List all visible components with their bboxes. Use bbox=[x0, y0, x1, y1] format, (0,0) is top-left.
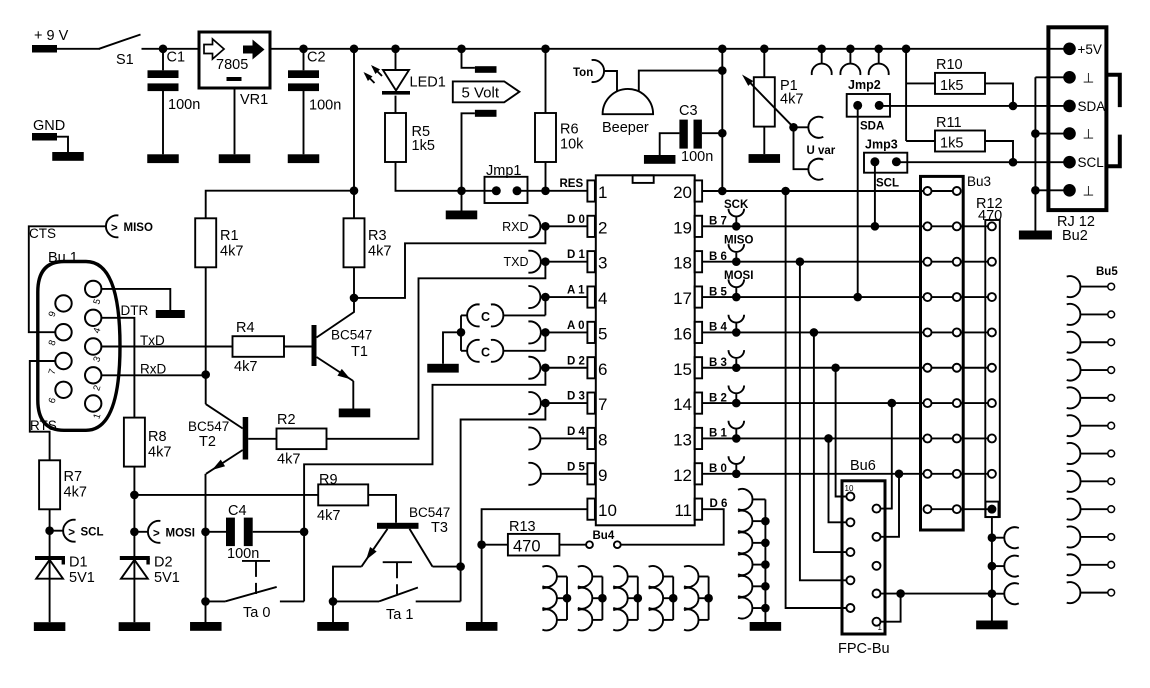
svg-text:DTR: DTR bbox=[121, 303, 149, 318]
svg-text:Bu6: Bu6 bbox=[850, 458, 876, 474]
svg-text:Ta 1: Ta 1 bbox=[386, 607, 413, 623]
socket R12 gnd 2 bbox=[988, 562, 997, 571]
node P1 wiper bbox=[789, 123, 798, 132]
IC pin 17 box bbox=[695, 286, 703, 307]
Bu5 socket 12 bbox=[1067, 582, 1081, 603]
LED1 bbox=[383, 69, 409, 71]
Bu3 row 5 pins bbox=[932, 331, 953, 333]
node SCL tap bbox=[45, 526, 54, 535]
svg-text:SCK: SCK bbox=[724, 199, 749, 211]
Bu5 socket 10 bbox=[1067, 527, 1081, 548]
IC line pin20 VCC bbox=[702, 190, 923, 192]
resistor R6 bbox=[545, 49, 547, 113]
IC pin 15 box bbox=[695, 357, 703, 378]
svg-text:BC547: BC547 bbox=[331, 328, 372, 343]
IC pin 12 box bbox=[695, 463, 703, 484]
IC U1 body bbox=[596, 175, 695, 525]
potentiometer P1 bbox=[763, 49, 765, 77]
wire C3 to ground bbox=[660, 133, 680, 155]
ground C1 bbox=[147, 154, 179, 163]
wire T3 collector link bbox=[433, 566, 461, 568]
resistor R8 bbox=[124, 418, 145, 467]
svg-text:⊥: ⊥ bbox=[1083, 70, 1095, 85]
wire VR1 ground bbox=[234, 88, 236, 154]
node C3 +5V bbox=[718, 129, 727, 138]
wire T3 emitter to Ta1 left bbox=[333, 567, 362, 602]
svg-text:2: 2 bbox=[598, 218, 607, 237]
RJ12 pin 6 GND bbox=[1063, 184, 1076, 197]
wire pin20 line to Bu6 bbox=[781, 187, 790, 196]
node C1 tap bbox=[159, 45, 168, 54]
svg-text:D 4: D 4 bbox=[567, 426, 586, 438]
svg-text:15: 15 bbox=[673, 360, 692, 379]
connector Bu3 body bbox=[921, 176, 964, 530]
grounded socket column bbox=[764, 499, 766, 622]
node R9 line tap bbox=[130, 491, 139, 500]
svg-text:100n: 100n bbox=[309, 98, 341, 114]
capacitor C1 bbox=[162, 49, 164, 71]
rail socket 2 bbox=[846, 45, 855, 54]
svg-text:4k7: 4k7 bbox=[220, 244, 243, 260]
wire rail to LED1 bbox=[395, 49, 397, 69]
svg-text:4k7: 4k7 bbox=[148, 445, 171, 461]
svg-text:Bu4: Bu4 bbox=[593, 530, 615, 542]
socket SCL left bbox=[50, 530, 64, 532]
wire Jmp3 to RJ12 SCL bbox=[896, 161, 1069, 163]
svg-text:CTS: CTS bbox=[29, 226, 56, 241]
svg-text:Bu2: Bu2 bbox=[1062, 228, 1088, 244]
wire B6 to Bu6 bbox=[796, 257, 805, 266]
Bu6 left pin 6 bbox=[846, 548, 854, 556]
wire R8 to D2 bbox=[133, 467, 135, 557]
R12 row 3 link bbox=[961, 296, 988, 298]
wire crystal common to ground bbox=[443, 332, 461, 364]
svg-text:10k: 10k bbox=[560, 137, 584, 153]
svg-text:Ton: Ton bbox=[573, 67, 593, 79]
svg-text:TXD: TXD bbox=[504, 255, 529, 269]
node Jmp2 on B5 bbox=[853, 293, 862, 302]
svg-text:470: 470 bbox=[978, 208, 1002, 224]
svg-text:5 Volt: 5 Volt bbox=[462, 85, 500, 102]
svg-text:7805: 7805 bbox=[216, 57, 248, 73]
wire T2 emitter down bbox=[205, 474, 207, 602]
RJ12 ground bus bbox=[1035, 76, 1069, 78]
svg-text:A 0: A 0 bbox=[567, 320, 584, 332]
Bu1 pin 1 bbox=[85, 395, 101, 411]
svg-text:19: 19 bbox=[673, 218, 692, 237]
svg-text:Bu3: Bu3 bbox=[967, 174, 991, 189]
svg-text:B 2: B 2 bbox=[709, 392, 727, 404]
svg-text:T3: T3 bbox=[431, 520, 448, 536]
node rail to IC supply column bbox=[718, 45, 727, 54]
svg-text:100n: 100n bbox=[227, 546, 259, 562]
svg-text:SCL: SCL bbox=[1078, 155, 1105, 170]
Bu5 socket 3 bbox=[1067, 332, 1081, 353]
ground P1 bbox=[749, 154, 781, 163]
socket Ton bbox=[592, 60, 604, 82]
svg-text:1: 1 bbox=[598, 183, 607, 202]
wire Ta0 right up bbox=[303, 532, 305, 602]
svg-text:R7: R7 bbox=[64, 469, 83, 485]
Bu6 right pin 5 bbox=[873, 562, 881, 570]
node R6 tap bbox=[541, 45, 550, 54]
svg-text:BC547: BC547 bbox=[409, 505, 450, 520]
wire Ta1 right up bbox=[460, 567, 462, 602]
ground D2 bbox=[119, 622, 150, 631]
ground D1 bbox=[34, 622, 66, 631]
wire R1 to RxD node bbox=[205, 267, 207, 404]
DTR ground bar bbox=[156, 310, 185, 318]
wire R8 node to R9 bbox=[134, 494, 318, 496]
svg-text:C4: C4 bbox=[228, 503, 247, 519]
svg-text:100n: 100n bbox=[168, 97, 200, 113]
svg-text:A 1: A 1 bbox=[567, 285, 585, 297]
node R11 SCL bbox=[1009, 158, 1018, 167]
IC pin 14 box bbox=[695, 393, 703, 414]
wire rail to R3 bbox=[353, 49, 355, 219]
IC line B 5 bbox=[702, 296, 923, 298]
node R13 left bbox=[477, 540, 486, 549]
Bu5 socket 4 bbox=[1067, 360, 1081, 381]
IC pin 16 box bbox=[695, 322, 703, 343]
ground socket column bbox=[750, 622, 782, 631]
+9V terminal bbox=[32, 45, 57, 53]
wire wiper to U var lower socket bbox=[794, 127, 809, 169]
Bu6 right pin 7 bbox=[873, 533, 881, 541]
RJ12 pin 2 GND bbox=[1063, 71, 1076, 84]
Bu6 right pin 9 bbox=[873, 505, 881, 513]
node beeper +5V bbox=[718, 66, 727, 75]
crystal socket lower C bbox=[467, 340, 479, 362]
Bu3 row 4 pins bbox=[932, 296, 953, 298]
Bu6 left pin 10 bbox=[846, 493, 854, 501]
svg-text:Bu5: Bu5 bbox=[1096, 266, 1118, 278]
IC line B 4 bbox=[702, 331, 923, 333]
svg-text:4k7: 4k7 bbox=[277, 452, 300, 468]
IC left socket D 2 bbox=[528, 357, 540, 379]
svg-text:GND: GND bbox=[33, 118, 65, 134]
svg-text:B 7: B 7 bbox=[709, 216, 727, 228]
jumper Jmp1 bbox=[462, 190, 497, 192]
pushbutton Ta 0 bbox=[206, 600, 226, 602]
node C4 right bbox=[300, 528, 309, 537]
svg-text:MOSI: MOSI bbox=[166, 528, 195, 540]
ground RJ12 bbox=[1019, 231, 1052, 240]
socket R12 gnd 1 bbox=[988, 533, 997, 542]
svg-text:1k5: 1k5 bbox=[412, 138, 435, 154]
resistor R3 bbox=[344, 218, 365, 267]
IC line B 6 bbox=[702, 261, 923, 263]
wire B3 to Bu6 bbox=[831, 363, 840, 372]
svg-text:B 5: B 5 bbox=[709, 286, 728, 298]
wire R13 node ground bbox=[481, 545, 483, 622]
socket MOSI left bbox=[134, 531, 148, 533]
Bu3 row 8 pins bbox=[932, 437, 953, 439]
switch S1 bbox=[99, 35, 141, 49]
IC left socket D 5 bbox=[528, 463, 540, 485]
connector Bu1 DB9 outline bbox=[38, 262, 120, 431]
ground GND terminal bbox=[52, 152, 84, 161]
5Volt lower tick bbox=[475, 110, 497, 117]
svg-text:C1: C1 bbox=[167, 50, 186, 66]
wire RXD to T1 collector bbox=[354, 226, 545, 298]
ground Ta1 bbox=[317, 622, 349, 631]
svg-text:C3: C3 bbox=[679, 103, 698, 119]
IC pin 4 box bbox=[587, 286, 595, 307]
IC left socket D 0 bbox=[528, 215, 540, 237]
Bu1 pin 2 bbox=[85, 367, 101, 383]
svg-text:MOSI: MOSI bbox=[724, 270, 753, 282]
svg-text:8: 8 bbox=[598, 430, 607, 449]
5 Volt net flag bbox=[453, 81, 520, 102]
svg-text:10: 10 bbox=[845, 484, 854, 493]
svg-text:Jmp2: Jmp2 bbox=[848, 78, 881, 92]
svg-text:R8: R8 bbox=[148, 429, 167, 445]
wire Jmp1 to R6 node bbox=[517, 190, 546, 192]
svg-text:VR1: VR1 bbox=[240, 92, 268, 108]
svg-text:R3: R3 bbox=[368, 228, 387, 244]
svg-text:D 0: D 0 bbox=[567, 214, 585, 226]
svg-text:B 6: B 6 bbox=[709, 251, 727, 263]
IC pin 1 box bbox=[587, 180, 595, 201]
wire RES to pin 1 bbox=[546, 190, 588, 192]
Bu3 row 3 pins bbox=[932, 261, 953, 263]
transistor T2 bbox=[243, 417, 249, 460]
socket triple 5 bbox=[708, 577, 710, 620]
R12 row 5 link bbox=[961, 367, 988, 369]
Bu6 left pin 8 bbox=[846, 518, 854, 526]
svg-text:D 6: D 6 bbox=[710, 498, 728, 510]
svg-text:16: 16 bbox=[673, 324, 692, 343]
node Jmp1 left bbox=[457, 187, 466, 196]
zener diode D2 bbox=[120, 556, 150, 560]
wire T1 emitter to ground bbox=[352, 381, 354, 409]
svg-text:R11: R11 bbox=[936, 115, 962, 131]
socket triple 2 bbox=[601, 577, 603, 620]
ground Ta0 bbox=[190, 622, 222, 631]
svg-text:RXD: RXD bbox=[502, 220, 528, 234]
IC pin 18 box bbox=[695, 251, 703, 272]
IC pin 7 box bbox=[587, 393, 595, 414]
Bu1 pin 7 bbox=[55, 353, 71, 369]
rail socket 1 bbox=[817, 45, 826, 54]
node R1R3 link bbox=[350, 186, 359, 195]
IC left socket D 4 bbox=[528, 427, 540, 449]
IC pin 19 box bbox=[695, 216, 703, 237]
RJ12 pin 3 SDA bbox=[1063, 100, 1076, 113]
svg-text:C2: C2 bbox=[307, 50, 326, 66]
node Ta1 left bbox=[329, 597, 338, 606]
socket triple 4 bbox=[672, 577, 674, 620]
Bu3 row 1 pins bbox=[932, 190, 953, 192]
wire beeper to +5V column bbox=[639, 71, 723, 92]
svg-text:4k7: 4k7 bbox=[780, 92, 803, 108]
transistor T1 bbox=[312, 325, 317, 366]
IC line B 7 bbox=[702, 225, 923, 227]
svg-text:4: 4 bbox=[598, 289, 607, 308]
wire Ta1 left ground bbox=[332, 601, 334, 622]
svg-text:FPC-Bu: FPC-Bu bbox=[838, 641, 890, 657]
crystal socket upper C bbox=[467, 304, 479, 326]
wire R6 to RES node bbox=[545, 162, 547, 191]
svg-text:20: 20 bbox=[673, 183, 692, 202]
svg-text:D 5: D 5 bbox=[567, 461, 586, 473]
svg-text:⊥: ⊥ bbox=[1083, 127, 1095, 142]
wire Jmp2 to RJ12 SDA bbox=[879, 105, 1069, 107]
svg-text:>: > bbox=[111, 223, 118, 235]
IC left socket A 1 bbox=[528, 286, 540, 308]
RJ12 pin 4 GND bbox=[1063, 127, 1076, 140]
svg-text:B 3: B 3 bbox=[709, 357, 727, 369]
voltage regulator VR1 7805 bbox=[199, 32, 270, 88]
wire C3 to +5V column bbox=[702, 132, 722, 134]
svg-text:C: C bbox=[481, 345, 490, 359]
svg-text:BC547: BC547 bbox=[188, 419, 229, 434]
node T1 collector bbox=[350, 294, 359, 303]
wire R7 to D1 bbox=[49, 509, 51, 556]
pushbutton Ta 1 bbox=[333, 600, 379, 602]
Bu1 pin 5 bbox=[85, 281, 101, 297]
wire pin2 RxD to T2 node bbox=[101, 374, 205, 376]
wire rail down to pin20 line bbox=[721, 49, 723, 191]
svg-text:3: 3 bbox=[598, 254, 607, 273]
wire pin5 to DTR ground bbox=[101, 289, 170, 310]
Bu3 row 6 pins bbox=[932, 367, 953, 369]
R12 row 2 link bbox=[961, 261, 988, 263]
svg-text:10: 10 bbox=[598, 501, 617, 520]
svg-text:SCL: SCL bbox=[81, 527, 104, 539]
svg-text:R2: R2 bbox=[277, 412, 296, 428]
wire wiper to U var upper socket bbox=[794, 126, 809, 128]
svg-text:4k7: 4k7 bbox=[368, 244, 391, 260]
IC line B 0 bbox=[702, 473, 923, 475]
socket U var upper bbox=[808, 117, 823, 138]
svg-text:R10: R10 bbox=[936, 57, 963, 73]
wire B4 to Bu6 bbox=[810, 328, 819, 337]
beeper bbox=[603, 89, 654, 114]
svg-text:5: 5 bbox=[598, 324, 607, 343]
svg-text:SCL: SCL bbox=[876, 178, 899, 190]
ground R13 bbox=[466, 622, 498, 631]
wire GND terminal to ground bbox=[57, 137, 68, 152]
Bu1 pin 6 bbox=[55, 382, 71, 398]
node RxD R1 T2 bbox=[201, 370, 210, 379]
svg-text:1k5: 1k5 bbox=[940, 78, 963, 94]
svg-text:>: > bbox=[68, 527, 75, 539]
Bu6 left pin 2 bbox=[846, 604, 854, 612]
svg-text:5V1: 5V1 bbox=[154, 570, 180, 586]
wire Jmp2 to B5 MOSI line bbox=[857, 105, 859, 297]
main +5V rail bbox=[270, 48, 1070, 50]
ground crystal bbox=[427, 364, 459, 373]
Bu5 socket 7 bbox=[1067, 443, 1081, 464]
IC line B 2 bbox=[702, 402, 923, 404]
wire B2 to Bu6 bbox=[888, 399, 897, 408]
svg-text:T1: T1 bbox=[351, 344, 368, 360]
Bu6 right pin 1 bbox=[873, 618, 881, 626]
wire Ta0 left ground bbox=[205, 601, 207, 622]
svg-text:R6: R6 bbox=[560, 122, 579, 138]
Bu5 socket 11 bbox=[1067, 554, 1081, 575]
wire Ton to beeper bbox=[604, 71, 617, 92]
connector Bu2 RJ12 body bbox=[1048, 27, 1106, 210]
wire R5 to Jmp1 node bbox=[396, 162, 462, 191]
wire B1 to Bu6 bbox=[824, 434, 833, 443]
node MOSI tap bbox=[130, 528, 139, 537]
resistor R1 bbox=[195, 218, 216, 267]
IC pin 11 box bbox=[695, 499, 703, 520]
svg-text:LED1: LED1 bbox=[410, 75, 446, 91]
svg-text:14: 14 bbox=[673, 395, 692, 414]
svg-text:D2: D2 bbox=[154, 555, 173, 571]
IC pin 13 box bbox=[695, 428, 703, 449]
Bu5 socket 9 bbox=[1067, 499, 1081, 520]
wire Jmp1 node to ground bbox=[461, 191, 463, 211]
Bu3 row 2 pins bbox=[932, 225, 953, 227]
svg-text:D1: D1 bbox=[69, 555, 88, 571]
Bu1 pin 4 bbox=[85, 310, 101, 326]
svg-text:C: C bbox=[481, 310, 490, 324]
ground C2 bbox=[288, 154, 320, 163]
node Ta0 left bbox=[201, 597, 210, 606]
wire +9V to switch S1 bbox=[57, 48, 100, 50]
wire B0 to Bu6 bbox=[895, 470, 904, 479]
wire S1 to VR1 input bbox=[142, 48, 200, 50]
node pin20 rail bbox=[718, 187, 727, 196]
socket U var lower bbox=[808, 159, 823, 180]
R12 row 9 link bbox=[961, 508, 988, 510]
wire pin4 DTR to R8 bbox=[101, 318, 134, 418]
svg-text:11: 11 bbox=[674, 501, 692, 520]
IC pin 10 box bbox=[587, 499, 595, 520]
node Jmp3 on B7 bbox=[871, 222, 880, 231]
resistor R5 bbox=[395, 96, 397, 113]
Bu5 socket 5 bbox=[1067, 387, 1081, 408]
Bu3 row 9 pins bbox=[932, 473, 953, 475]
svg-text:D 1: D 1 bbox=[567, 249, 586, 261]
svg-text:470: 470 bbox=[513, 538, 541, 556]
IC pin 3 box bbox=[587, 251, 595, 272]
IC pin 20 box bbox=[695, 180, 703, 201]
wire Bu6 pin jog bbox=[881, 594, 901, 622]
svg-text:5V1: 5V1 bbox=[69, 570, 95, 586]
IC pin 5 box bbox=[587, 322, 595, 343]
IC pin 8 box bbox=[587, 428, 595, 449]
svg-text:B 4: B 4 bbox=[709, 322, 728, 334]
node C4 left bbox=[201, 528, 210, 537]
R12 row 1 link bbox=[961, 225, 988, 227]
IC pin 6 box bbox=[587, 357, 595, 378]
wire R9 to T3 base bbox=[368, 495, 396, 523]
wire pin 11 D6 to Bu4 line bbox=[621, 509, 724, 545]
Bu1 pin 3 bbox=[85, 338, 101, 354]
svg-text:R1: R1 bbox=[220, 228, 239, 244]
node P1 tap bbox=[760, 45, 769, 54]
svg-text:9: 9 bbox=[598, 466, 607, 485]
Bu3 row 10 pins bbox=[932, 508, 953, 510]
node R10 SDA bbox=[1009, 102, 1018, 111]
socket triple 3 bbox=[637, 577, 639, 620]
svg-text:17: 17 bbox=[673, 289, 692, 308]
RJ12 pin 1 +5V bbox=[1063, 43, 1076, 56]
svg-text:13: 13 bbox=[673, 430, 692, 449]
svg-text:+ 9 V: + 9 V bbox=[34, 28, 69, 44]
svg-text:R9: R9 bbox=[319, 472, 338, 488]
wire D2 to Ta0 node bbox=[304, 368, 545, 532]
svg-text:6: 6 bbox=[598, 360, 607, 379]
svg-text:+5V: +5V bbox=[1078, 42, 1102, 57]
svg-text:1k5: 1k5 bbox=[940, 136, 963, 152]
